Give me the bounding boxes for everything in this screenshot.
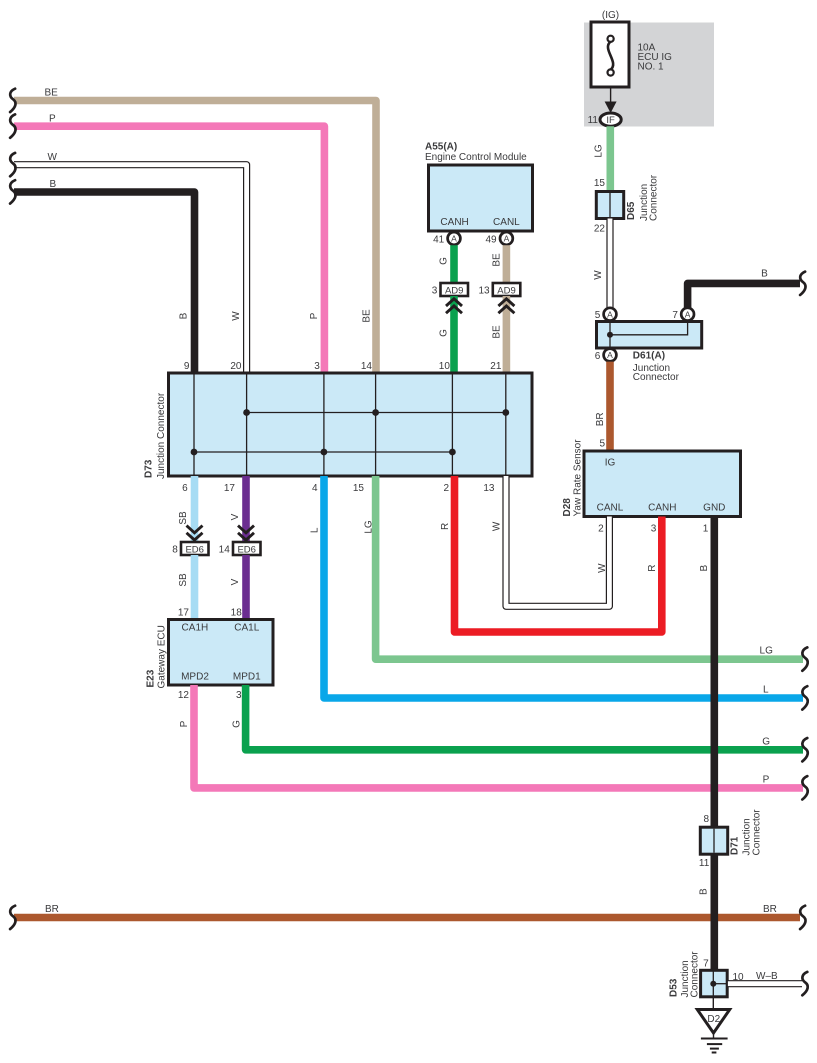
wire SB from ED6 to E23 pin 17 xyxy=(191,555,199,620)
svg-text:LG: LG xyxy=(760,646,774,657)
svg-text:18: 18 xyxy=(231,608,243,619)
wire W from left to D73 pin 20 xyxy=(14,165,247,373)
chevrons on G xyxy=(446,299,462,313)
gateway ECU E23 xyxy=(169,620,274,686)
svg-text:D2: D2 xyxy=(707,1014,720,1025)
wire B from left to D73 pin 9 xyxy=(14,192,195,373)
svg-text:L: L xyxy=(310,527,321,533)
wire BE from left to D73 pin 14 xyxy=(14,101,376,374)
svg-text:3: 3 xyxy=(314,361,320,372)
connector AD9 pin 3 xyxy=(441,283,469,296)
svg-text:GND: GND xyxy=(703,503,725,514)
svg-text:20: 20 xyxy=(230,361,242,372)
yaw rate sensor D28 xyxy=(584,451,741,517)
wire B from D28 GND to D71 xyxy=(710,517,718,828)
svg-text:CA1L: CA1L xyxy=(234,623,259,634)
svg-text:BE: BE xyxy=(45,88,59,99)
svg-text:P: P xyxy=(179,720,190,727)
svg-text:21: 21 xyxy=(490,361,502,372)
svg-text:E23: E23 xyxy=(146,669,157,687)
ground triangle D2 xyxy=(697,1010,729,1034)
wire V from D73 pin 17 to ED6 xyxy=(242,476,250,542)
svg-text:D73: D73 xyxy=(144,459,155,478)
svg-text:Gateway ECU: Gateway ECU xyxy=(157,625,168,688)
svg-text:W: W xyxy=(593,270,604,280)
svg-text:BR: BR xyxy=(595,412,606,426)
svg-text:5: 5 xyxy=(595,310,601,321)
wire L from D73 pin 4 to right xyxy=(324,476,803,698)
node A pin 5 xyxy=(604,308,617,321)
svg-text:41: 41 xyxy=(433,234,445,245)
internal vertical wires of D73 xyxy=(194,374,506,475)
svg-text:14: 14 xyxy=(219,545,231,556)
svg-text:D65: D65 xyxy=(626,201,637,220)
svg-text:7: 7 xyxy=(672,310,678,321)
wire V from ED6 to E23 pin 18 xyxy=(242,555,250,620)
svg-text:NO. 1: NO. 1 xyxy=(638,62,665,73)
svg-text:W: W xyxy=(231,311,242,321)
svg-text:8: 8 xyxy=(172,545,178,556)
svg-text:R: R xyxy=(647,565,658,572)
svg-text:17: 17 xyxy=(224,483,236,494)
svg-text:P: P xyxy=(309,312,320,319)
svg-text:3: 3 xyxy=(432,286,438,297)
svg-text:G: G xyxy=(762,737,770,748)
wire SB from D73 pin 6 to ED6 xyxy=(191,476,199,542)
svg-text:CANH: CANH xyxy=(440,217,468,228)
fuse ECU IG NO.1 xyxy=(591,22,629,87)
svg-text:LG: LG xyxy=(594,144,605,158)
wire G from AD9 to D73 pin 10 xyxy=(450,296,458,373)
svg-text:MPD1: MPD1 xyxy=(233,672,261,683)
svg-text:13: 13 xyxy=(483,483,495,494)
svg-text:W: W xyxy=(48,152,58,163)
svg-text:BE: BE xyxy=(492,253,503,267)
svg-text:14: 14 xyxy=(361,361,373,372)
svg-text:CANL: CANL xyxy=(493,217,520,228)
svg-text:B: B xyxy=(699,888,710,895)
wire LG from D73 pin 15 to right xyxy=(376,476,803,659)
svg-text:B: B xyxy=(761,269,768,280)
wire LG from IF to D65 xyxy=(606,126,614,192)
connector ED6 pin 14 xyxy=(233,542,261,555)
svg-text:4: 4 xyxy=(312,483,318,494)
svg-text:V: V xyxy=(230,513,241,520)
internal wiring of D61 xyxy=(610,322,688,354)
svg-text:10: 10 xyxy=(439,361,451,372)
svg-text:W: W xyxy=(492,521,503,531)
svg-text:Connector: Connector xyxy=(690,951,701,998)
svg-text:17: 17 xyxy=(178,608,190,619)
ground symbol xyxy=(701,1033,728,1053)
svg-text:D61(A): D61(A) xyxy=(633,351,665,362)
svg-text:15: 15 xyxy=(353,483,365,494)
wire W from D65 to D61 pin 5 xyxy=(606,219,613,308)
svg-text:49: 49 xyxy=(485,234,497,245)
svg-text:2: 2 xyxy=(443,483,449,494)
svg-text:W: W xyxy=(597,563,608,573)
svg-text:W–B: W–B xyxy=(756,971,778,982)
svg-text:Connector: Connector xyxy=(633,372,680,383)
svg-text:2: 2 xyxy=(598,524,604,535)
svg-text:ED6: ED6 xyxy=(237,544,255,555)
node A pin 7 xyxy=(681,308,694,321)
svg-text:B: B xyxy=(179,312,190,319)
svg-text:IG: IG xyxy=(605,457,616,468)
node A pin 49 xyxy=(500,232,513,245)
svg-text:Connector: Connector xyxy=(649,174,660,221)
svg-text:Yaw Rate Sensor: Yaw Rate Sensor xyxy=(572,439,583,517)
svg-text:3: 3 xyxy=(651,524,657,535)
node IF ellipse xyxy=(600,113,621,126)
svg-text:5: 5 xyxy=(599,439,605,450)
svg-text:Junction Connector: Junction Connector xyxy=(156,392,167,479)
svg-text:13: 13 xyxy=(478,286,490,297)
svg-text:7: 7 xyxy=(703,959,709,970)
svg-text:(IG): (IG) xyxy=(602,10,619,21)
wire P from left to D73 pin 3 xyxy=(14,126,324,373)
svg-text:CANH: CANH xyxy=(648,503,676,514)
wire from fuse to IF xyxy=(610,87,612,103)
svg-text:6: 6 xyxy=(595,351,601,362)
svg-text:15: 15 xyxy=(594,178,606,189)
svg-text:SB: SB xyxy=(178,573,189,587)
wire BR from D61 pin 6 to D28 xyxy=(606,362,614,451)
lower bus in D73 xyxy=(194,451,452,453)
node A pin 41 xyxy=(448,232,461,245)
wire G from E23 MPD1 to right xyxy=(246,685,803,750)
junction dot in D61 xyxy=(607,332,613,338)
svg-text:SB: SB xyxy=(178,511,189,525)
svg-text:MPD2: MPD2 xyxy=(181,672,209,683)
svg-text:9: 9 xyxy=(184,361,190,372)
wire BE from AD9 to D73 pin 21 xyxy=(503,296,511,373)
connector ED6 pin 8 xyxy=(181,542,209,555)
svg-text:1: 1 xyxy=(703,524,709,535)
junction connector D53 xyxy=(701,970,728,997)
svg-text:L: L xyxy=(763,685,769,696)
svg-text:G: G xyxy=(232,720,243,728)
svg-text:CANL: CANL xyxy=(597,503,624,514)
svg-text:R: R xyxy=(440,523,451,530)
svg-text:BE: BE xyxy=(492,325,503,339)
upper bus in D73 xyxy=(247,412,506,414)
wire R from D73 pin 2 to D28 CANH xyxy=(455,476,662,632)
svg-text:8: 8 xyxy=(703,814,709,825)
wire W-B from D53 to right xyxy=(728,980,802,987)
wire B from D71 to D53 xyxy=(710,855,718,971)
svg-text:BR: BR xyxy=(763,904,777,915)
svg-text:G: G xyxy=(439,329,450,337)
junction connector D71 xyxy=(700,827,727,854)
svg-text:Connector: Connector xyxy=(752,809,763,856)
svg-text:D53: D53 xyxy=(669,978,680,997)
svg-text:6: 6 xyxy=(182,483,188,494)
svg-text:11: 11 xyxy=(588,115,599,126)
wire BR across bottom xyxy=(14,914,800,922)
svg-text:D71: D71 xyxy=(730,836,741,855)
junction connector D61(A) xyxy=(597,322,702,349)
arrowhead into IF xyxy=(605,102,617,114)
svg-text:AD9: AD9 xyxy=(445,285,463,296)
node A pin 6 xyxy=(604,349,617,362)
junction connector D73 xyxy=(169,373,533,476)
svg-text:P: P xyxy=(763,775,770,786)
svg-text:BE: BE xyxy=(362,309,373,323)
svg-text:IF: IF xyxy=(606,115,615,126)
svg-text:22: 22 xyxy=(594,224,606,235)
chevrons on BE xyxy=(498,299,514,313)
wire G from pin 41 to AD9 xyxy=(450,245,458,283)
svg-text:ED6: ED6 xyxy=(185,544,203,555)
svg-text:11: 11 xyxy=(699,858,710,869)
curl on wire B xyxy=(800,272,805,295)
svg-text:LG: LG xyxy=(364,520,375,534)
engine control module A55(A) xyxy=(429,165,533,231)
wire from D53 to ground D2 xyxy=(712,997,714,1009)
svg-text:B: B xyxy=(50,179,57,190)
wire W from D73 pin 13 to D28 CANL xyxy=(506,476,609,606)
ignition power area background xyxy=(584,23,714,127)
svg-text:BR: BR xyxy=(45,904,59,915)
svg-text:3: 3 xyxy=(236,690,242,701)
svg-text:CA1H: CA1H xyxy=(182,623,209,634)
svg-text:AD9: AD9 xyxy=(497,285,515,296)
svg-text:B: B xyxy=(699,565,710,572)
svg-text:V: V xyxy=(230,578,241,585)
wire BE from pin 49 to AD9 xyxy=(503,245,511,283)
junction dot in D53 xyxy=(710,981,716,987)
wire B from right into D61 pin 7 xyxy=(688,283,800,307)
connector AD9 pin 13 xyxy=(493,283,521,296)
wire P from E23 MPD2 to right xyxy=(194,685,803,788)
svg-text:10: 10 xyxy=(733,972,745,983)
svg-text:G: G xyxy=(439,257,450,265)
svg-text:Engine Control Module: Engine Control Module xyxy=(425,152,527,163)
svg-text:P: P xyxy=(49,113,56,124)
junction connector D65 xyxy=(596,192,623,219)
svg-text:12: 12 xyxy=(178,690,190,701)
